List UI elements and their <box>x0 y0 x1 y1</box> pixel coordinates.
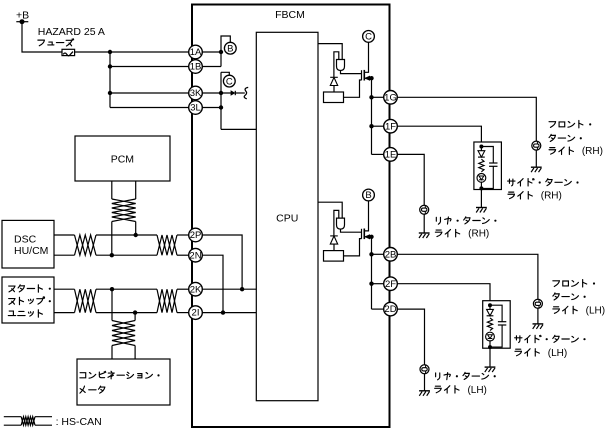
svg-text:1E: 1E <box>385 150 397 161</box>
svg-text:HU/CM: HU/CM <box>14 245 48 257</box>
svg-text:(RH): (RH) <box>468 229 489 240</box>
svg-text:(LH): (LH) <box>586 305 605 316</box>
svg-text:(LH): (LH) <box>467 385 486 396</box>
svg-text:C: C <box>226 76 233 87</box>
svg-text:FBCM: FBCM <box>275 9 305 21</box>
svg-text:B: B <box>227 43 233 54</box>
svg-text:1B: 1B <box>190 62 202 73</box>
svg-text:: HS-CAN: : HS-CAN <box>56 416 102 428</box>
svg-text:2I: 2I <box>192 308 200 319</box>
svg-text:(RH): (RH) <box>541 191 562 202</box>
svg-text:2F: 2F <box>385 279 396 290</box>
svg-text:(LH): (LH) <box>548 348 567 359</box>
svg-text:1F: 1F <box>385 121 396 132</box>
svg-text:HAZARD 25 A: HAZARD 25 A <box>38 26 105 38</box>
svg-text:3L: 3L <box>190 103 201 114</box>
svg-text:2D: 2D <box>384 304 396 315</box>
svg-text:B: B <box>365 190 371 201</box>
svg-text:3K: 3K <box>190 88 202 99</box>
svg-text:2P: 2P <box>190 230 202 241</box>
svg-text:2N: 2N <box>189 250 201 261</box>
svg-text:(RH): (RH) <box>582 146 603 157</box>
svg-text:2K: 2K <box>190 284 202 295</box>
svg-text:CPU: CPU <box>276 213 298 225</box>
svg-text:PCM: PCM <box>111 154 134 166</box>
svg-text:1G: 1G <box>384 92 397 103</box>
svg-text:C: C <box>365 32 372 43</box>
svg-text:DSC: DSC <box>14 233 37 245</box>
svg-text:1A: 1A <box>190 47 202 58</box>
svg-text:2B: 2B <box>385 249 397 260</box>
